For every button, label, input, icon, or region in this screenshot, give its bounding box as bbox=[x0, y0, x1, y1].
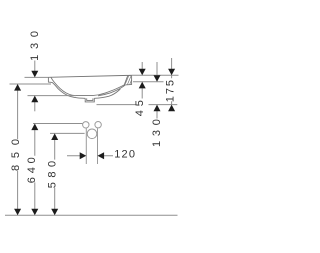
130 right stems bbox=[156, 62, 158, 119]
top 130 down arrow bbox=[31, 71, 38, 78]
850 line bbox=[17, 90, 19, 209]
580 up arrow bbox=[51, 133, 58, 140]
175 arrows bbox=[168, 69, 175, 76]
right: 45 lower extension bbox=[133, 81, 164, 83]
right: 175 lower extension (broken around 45 text) bbox=[97, 104, 178, 106]
front face + outer underside (left) bbox=[48, 77, 85, 98]
45 dim stems bbox=[141, 62, 143, 99]
svg-text:580: 580 bbox=[46, 156, 58, 188]
dimension stems gray bbox=[18, 58, 172, 209]
hatch lines in section bbox=[125, 76, 131, 85]
45 arrows bbox=[139, 69, 146, 76]
pipe extension lines down bbox=[86, 128, 97, 164]
130 right arrows bbox=[154, 75, 161, 82]
outer underside (right) bbox=[94, 89, 120, 98]
bowl depth lower arrow stem bbox=[34, 102, 36, 111]
640 line bbox=[34, 130, 36, 209]
rim top line bbox=[48, 75, 130, 77]
rear rim cut section bbox=[124, 75, 131, 85]
120 stems bbox=[67, 155, 113, 157]
svg-text:175: 175 bbox=[165, 78, 177, 102]
svg-text:850: 850 bbox=[10, 132, 22, 171]
175 stems bbox=[171, 58, 173, 105]
washbasin side-view outline bbox=[48, 75, 131, 102]
120 arrows bbox=[80, 152, 87, 159]
bowl-bottom up arrow bbox=[31, 96, 38, 103]
top 130 stem bbox=[34, 61, 36, 72]
supply and drain symbols bbox=[83, 122, 102, 165]
right: rim top extension bbox=[132, 74, 179, 76]
floor down arrows bbox=[14, 209, 21, 216]
far wall line bbox=[98, 85, 125, 96]
svg-text:130: 130 bbox=[29, 25, 41, 61]
640 up arrow bbox=[31, 124, 38, 131]
floor line bbox=[5, 214, 178, 216]
drain stub inner bbox=[87, 98, 93, 100]
black arrowheads bbox=[14, 69, 175, 216]
extension lines gray bbox=[5, 75, 179, 215]
left: bowl bottom extension bbox=[28, 95, 77, 97]
drain circle extension (580) bbox=[50, 132, 85, 134]
svg-text:640: 640 bbox=[26, 153, 38, 183]
drain stub outer bbox=[85, 98, 94, 102]
svg-text:45: 45 bbox=[134, 96, 146, 116]
svg-text:120: 120 bbox=[114, 149, 136, 161]
bowl inner surface bbox=[51, 77, 124, 95]
850 up arrow bbox=[14, 84, 21, 91]
left: 850 level extension bbox=[10, 83, 52, 85]
580 line bbox=[54, 140, 56, 209]
supply circles extension (640) bbox=[33, 123, 82, 125]
dimension texts bbox=[10, 25, 177, 188]
svg-text:130: 130 bbox=[151, 114, 163, 147]
left: rim top extension bbox=[25, 76, 49, 78]
